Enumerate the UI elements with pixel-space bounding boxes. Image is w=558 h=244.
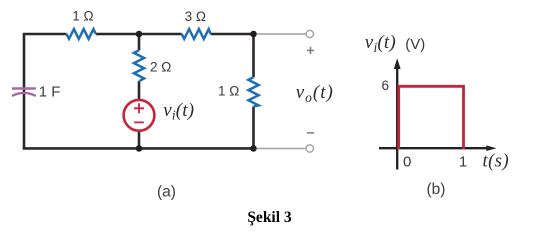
label minus polarity <box>307 132 314 134</box>
resistor R4 1 Ohm right vertical <box>248 77 258 106</box>
node dot top-middle <box>136 31 143 38</box>
svg-text:1 Ω: 1 Ω <box>218 84 239 99</box>
terminal bottom open circle <box>306 145 313 152</box>
svg-text:vi(t): vi(t) <box>163 100 194 123</box>
source V1 minus sign <box>134 121 144 123</box>
wire: right branch column <box>252 34 255 148</box>
svg-text:vo(t): vo(t) <box>296 82 334 105</box>
svg-text:(V): (V) <box>405 36 425 53</box>
graph y-axis arrowhead <box>394 58 401 69</box>
wire: gray lead to top output terminal <box>257 33 306 35</box>
node dot bottom-right <box>250 145 257 152</box>
svg-text:3 Ω: 3 Ω <box>185 9 206 24</box>
terminal top open circle <box>306 30 313 37</box>
node dot bottom-middle <box>136 145 143 152</box>
svg-text:t(s): t(s) <box>483 152 510 172</box>
wire: middle branch column <box>138 34 141 148</box>
svg-text:Şekil 3: Şekil 3 <box>247 209 292 226</box>
graph x-axis arrowhead <box>486 145 496 151</box>
resistor R1 1 Ohm top-left <box>67 29 96 39</box>
wire: left vertical branch with capacitor <box>23 34 26 148</box>
svg-text:(a): (a) <box>157 183 176 200</box>
wire: bottom return <box>23 147 254 150</box>
svg-text:6: 6 <box>381 78 389 93</box>
capacitor C1 1 F top plate <box>12 87 36 90</box>
source V1 plus sign <box>134 103 144 113</box>
svg-text:(b): (b) <box>427 181 446 198</box>
pulse waveform 6V from 0 to 1 s <box>399 86 464 149</box>
label plus polarity <box>307 47 314 54</box>
svg-text:1 F: 1 F <box>39 83 61 100</box>
svg-text:1 Ω: 1 Ω <box>72 9 93 24</box>
svg-text:vi(t): vi(t) <box>365 32 396 55</box>
svg-text:2 Ω: 2 Ω <box>150 60 171 75</box>
graph y-axis vi(t) (V) <box>396 65 398 170</box>
source V1 circle <box>124 100 155 131</box>
svg-text:0: 0 <box>403 153 411 170</box>
wire: top segment left node A to node B <box>23 33 254 36</box>
resistor R3 2 Ohm middle vertical <box>134 50 144 81</box>
capacitor C1 1 F curved plate <box>12 93 36 96</box>
node dot top-right <box>250 31 257 38</box>
svg-text:1: 1 <box>459 153 467 170</box>
graph x-axis t <box>379 147 488 149</box>
resistor R2 3 Ohm top-right <box>182 29 211 39</box>
wire: gray lead to bottom output terminal <box>257 148 306 150</box>
